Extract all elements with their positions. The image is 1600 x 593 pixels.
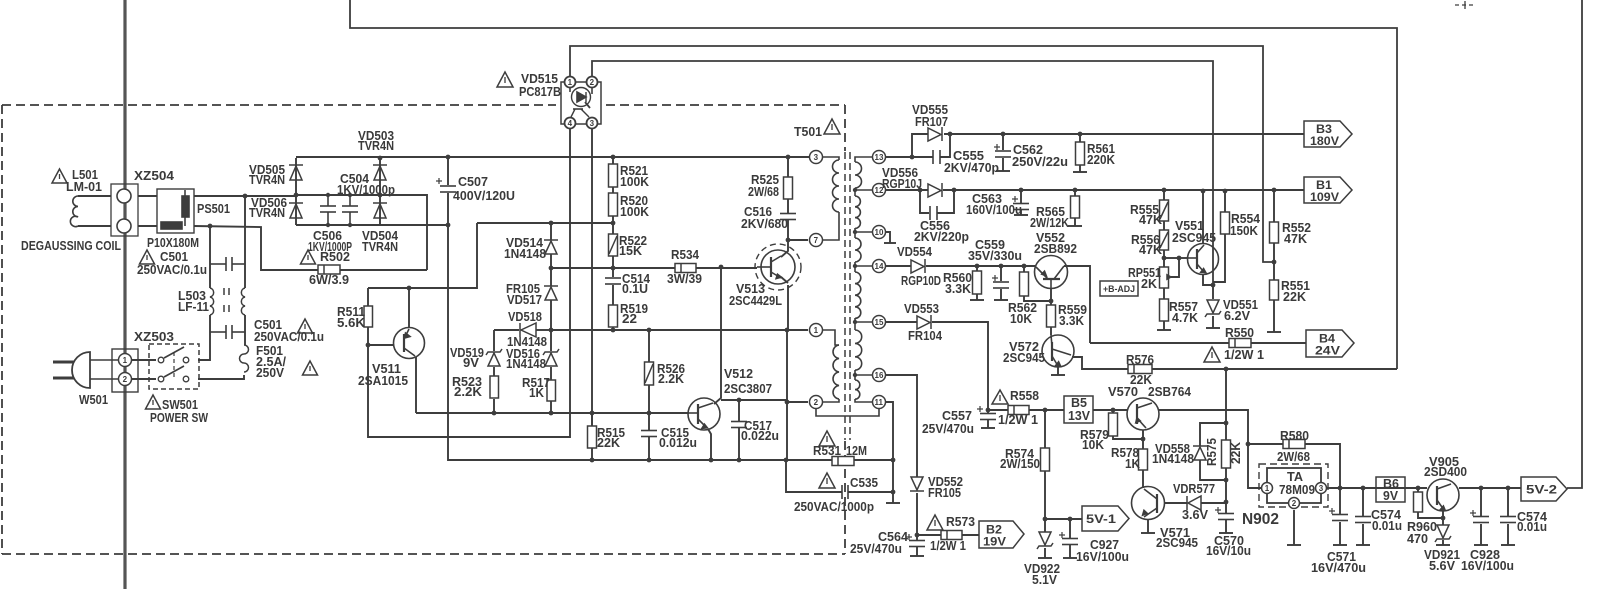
svg-text:3: 3 (590, 119, 595, 128)
svg-text:0.022u: 0.022u (741, 429, 779, 443)
wire C571 column (1339, 488, 1341, 514)
wire R511 emitter row (368, 223, 477, 288)
wire pin1 stub (787, 329, 808, 331)
svg-text:47K: 47K (1139, 213, 1162, 227)
transformer pin 3 (810, 151, 823, 164)
svg-text:2SC4429L: 2SC4429L (729, 294, 782, 308)
svg-text:T501: T501 (794, 125, 822, 139)
junction dots primary (366, 155, 896, 495)
svg-text:14: 14 (875, 262, 884, 271)
svg-text:78M09: 78M09 (1279, 483, 1315, 497)
warning triangle R550 (1204, 347, 1220, 362)
wire primary gnd bus (593, 459, 786, 461)
svg-text:1: 1 (1265, 484, 1270, 493)
diode VD552 FR105 (910, 477, 924, 491)
wire V513 collector (781, 240, 788, 257)
wire VD518 row (494, 329, 519, 331)
wire C564 leads (916, 535, 918, 540)
transformer pin 10 (873, 226, 886, 239)
wire R559 to V572 (1050, 327, 1052, 335)
resistor R960 (1414, 492, 1423, 512)
resistor R578 (1139, 449, 1148, 470)
svg-text:+B-ADJ: +B-ADJ (1103, 284, 1135, 294)
wire R575 bottom (1225, 468, 1227, 513)
wire XZ503 pin1 to switch (131, 359, 156, 361)
warning triangle R558 (992, 390, 1008, 404)
wire R960 column (1417, 488, 1419, 492)
wire R580 row (1248, 443, 1283, 445)
diode VD554 RGP10D (911, 259, 925, 273)
transistor V571 (1132, 487, 1165, 520)
wire control row y413 (416, 412, 689, 414)
wire R511 bottom to base node (368, 327, 394, 345)
svg-text:2SC945: 2SC945 (1156, 536, 1198, 550)
box B6 9V (1376, 477, 1405, 502)
connector XZ504 (111, 184, 138, 236)
svg-text:2: 2 (123, 375, 128, 384)
wire C562 column (1002, 134, 1004, 150)
wire C574a column (1362, 488, 1364, 516)
svg-text:4.7K: 4.7K (1172, 311, 1198, 325)
svg-text:10: 10 (875, 228, 884, 237)
wire C555 branch (912, 156, 933, 158)
junction dots regulation (1162, 188, 1277, 505)
svg-text:2K: 2K (1141, 277, 1157, 291)
wire V512 emitter (708, 429, 711, 460)
svg-text:VD517: VD517 (507, 293, 542, 307)
label R575 vertical (1205, 438, 1243, 466)
wire V571 emitter (1147, 519, 1149, 533)
wire VD922 node (1044, 519, 1046, 532)
svg-text:160V/100u: 160V/100u (966, 203, 1022, 217)
resistor R559 (1047, 305, 1056, 327)
wire C556 loop (920, 190, 929, 213)
wire 5V-1 row (1045, 518, 1082, 520)
wire VD519 to R523 (493, 367, 495, 376)
svg-text:N902: N902 (1242, 511, 1279, 528)
wire R534 to V513 base (696, 267, 757, 269)
svg-text:109V: 109V (1310, 192, 1339, 204)
wire top loop to 5V-2 net (350, 0, 1397, 369)
wire C557 cap leads (987, 410, 989, 413)
wire N902 pin3 out (1325, 487, 1340, 489)
capacitor C507 (436, 178, 456, 192)
transistor V552 (1035, 256, 1068, 290)
svg-text:10K: 10K (1010, 312, 1032, 326)
wire opto pin1 to R552 column (570, 46, 1274, 262)
wire V513 emitter diag (781, 277, 788, 283)
svg-text:1N4148: 1N4148 (1152, 452, 1194, 466)
svg-text:3.3K: 3.3K (945, 282, 971, 296)
gnd tick C559 (994, 299, 1008, 301)
svg-text:13V: 13V (1068, 409, 1091, 423)
svg-text:2W/68: 2W/68 (1277, 450, 1310, 464)
transformer pin 13 (873, 151, 886, 164)
diode VD555 FR107 (928, 127, 942, 141)
capacitor C556 (930, 206, 937, 220)
wire R515 bottom (591, 448, 593, 460)
wire R554 column (1224, 191, 1226, 212)
svg-text:7: 7 (814, 236, 819, 245)
diode VD556 RGP10J (928, 183, 942, 197)
resistor R531 (832, 457, 854, 466)
wire RP551 wiper arrow (1171, 258, 1179, 277)
wire V511 collector (415, 357, 417, 413)
wire V551 base (1179, 257, 1188, 259)
capacitor C559 (992, 275, 1009, 288)
gnd tick pin10 (884, 242, 896, 244)
wire R557 bottom (1163, 321, 1165, 330)
wire B+ top rail (296, 156, 816, 158)
wire VD517 to y330 (550, 300, 552, 330)
transformer T501 core (845, 152, 850, 440)
svg-text:2KV/680: 2KV/680 (741, 217, 788, 231)
capacitor C574a (1355, 517, 1371, 523)
wire R558 row (988, 409, 1008, 411)
resistor R515 (588, 426, 597, 448)
svg-text:R550: R550 (1225, 326, 1254, 340)
wire 5V-2 rail (1330, 487, 1427, 489)
svg-text:W501: W501 (79, 393, 108, 407)
svg-text:XZ503: XZ503 (134, 330, 174, 344)
svg-text:9V: 9V (1383, 489, 1399, 503)
zener VD516 (543, 349, 559, 366)
wire R565 column (1074, 190, 1076, 196)
wire C563 column (1020, 190, 1022, 203)
gnd tick R561 (1073, 171, 1087, 173)
transformer pin 16 (873, 369, 886, 382)
wire collector node to pin7 (788, 239, 808, 241)
resistor R551 (1270, 280, 1279, 300)
degaussing coil L501 (70, 196, 78, 227)
gnd tick VD922 (1038, 557, 1052, 559)
gnd tick C562 (996, 170, 1010, 172)
svg-text:2SA1015: 2SA1015 (358, 374, 408, 388)
capacitor C928 (1470, 510, 1489, 523)
svg-text:400V/120U: 400V/120U (453, 189, 515, 203)
wire R517 bottom (550, 401, 552, 413)
wire C517 leads (738, 400, 740, 421)
resistor R526 (645, 362, 654, 385)
capacitor C555 (933, 150, 940, 164)
wire VD553 to C557 column (932, 322, 988, 410)
wire R523 bottom (493, 399, 495, 413)
resistor R511 (364, 306, 373, 327)
flag 5V-2 (1521, 477, 1567, 501)
svg-text:6W/3.9: 6W/3.9 (309, 273, 349, 287)
svg-text:2: 2 (814, 398, 819, 407)
svg-text:C501: C501 (160, 250, 188, 264)
resistor R579 (1109, 413, 1118, 436)
gnd tick C927 (1063, 557, 1077, 559)
wire L-filter right leg lower (244, 315, 246, 345)
svg-text:250VAC/0.1u: 250VAC/0.1u (254, 330, 324, 344)
svg-text:0.012u: 0.012u (659, 436, 697, 450)
diode VD503 (373, 165, 387, 180)
wire C516 to collector node (787, 220, 789, 240)
resistor R522 (609, 234, 618, 256)
svg-text:12M: 12M (846, 444, 867, 458)
svg-text:220K: 220K (1087, 153, 1115, 167)
diode VD558 (1193, 446, 1207, 460)
diode VD506 (289, 203, 303, 218)
gnd tick R551 (1267, 331, 1281, 333)
capacitor C514 (605, 278, 621, 284)
svg-text:B5: B5 (1071, 396, 1087, 410)
transformer pin 12 (873, 184, 886, 197)
wire R526 column (648, 330, 650, 362)
svg-text:11: 11 (875, 398, 884, 407)
wire C507 column (447, 157, 449, 185)
svg-text:SW501: SW501 (162, 398, 198, 412)
svg-text:2: 2 (1292, 499, 1297, 508)
capacitor C563 (1012, 196, 1029, 210)
svg-text:100K: 100K (620, 175, 649, 189)
svg-text:5.1V: 5.1V (1032, 573, 1058, 587)
svg-text:TVR4N: TVR4N (362, 240, 398, 254)
svg-text:9V: 9V (463, 356, 480, 370)
svg-text:V512: V512 (724, 367, 753, 381)
wire RP551 tap node (1164, 257, 1179, 259)
resistor R557 (1160, 299, 1169, 321)
wire R521 top (612, 157, 614, 164)
svg-text:16V/470u: 16V/470u (1311, 561, 1366, 575)
svg-text:19V: 19V (983, 537, 1006, 549)
svg-text:B3: B3 (1316, 124, 1332, 136)
gnd tick VD551 (1206, 327, 1220, 329)
svg-text:2KV/220p: 2KV/220p (914, 230, 969, 244)
wire L-filter left leg (209, 226, 211, 288)
svg-text:5V-2: 5V-2 (1526, 485, 1557, 497)
svg-text:10K: 10K (1082, 438, 1104, 452)
gnd tick R565 (1068, 225, 1082, 227)
svg-text:15K: 15K (619, 244, 642, 258)
wire pin14 to VD554 (886, 265, 911, 267)
svg-text:1/2W 1: 1/2W 1 (998, 413, 1038, 427)
resistor R550 (1229, 339, 1251, 348)
labels regulation (1003, 203, 1311, 387)
wire R555 to R556 (1163, 221, 1165, 230)
wire L-filter right leg (244, 196, 246, 288)
resistor R523 (490, 376, 499, 398)
svg-text:24V: 24V (1315, 346, 1340, 358)
labels input section (21, 129, 398, 425)
transformer pin 15 (873, 316, 886, 329)
transistor V551 (1188, 244, 1219, 275)
wire R561 column (1079, 134, 1081, 142)
warning triangle F501 (303, 361, 318, 375)
svg-text:R576: R576 (1126, 353, 1154, 367)
svg-text:0.01u: 0.01u (1517, 520, 1547, 534)
zener VD921 (1435, 525, 1451, 542)
wire V511 emitter (408, 288, 410, 328)
wire V552 collector to B4 (1064, 266, 1090, 343)
resistor R558 (1008, 406, 1029, 415)
svg-text:2W/150: 2W/150 (1000, 457, 1040, 471)
svg-text:22K: 22K (1229, 442, 1243, 464)
svg-text:16V/100u: 16V/100u (1461, 559, 1514, 573)
svg-text:C507: C507 (458, 175, 488, 189)
svg-text:250V/22u: 250V/22u (1012, 155, 1068, 169)
gnd tick C574a (1356, 544, 1370, 546)
wire R552 column (1273, 190, 1275, 222)
svg-text:VD554: VD554 (897, 245, 932, 259)
plus tick top right (1455, 1, 1476, 9)
resistor R565 (1071, 196, 1080, 218)
capacitor C535 (842, 485, 848, 499)
line filter L503 (210, 288, 245, 315)
transformer T501 primary winding (816, 157, 839, 240)
svg-text:3: 3 (1319, 484, 1324, 493)
svg-text:VDR577: VDR577 (1173, 482, 1215, 496)
svg-text:16: 16 (875, 371, 884, 380)
diode VD517 FR105 (544, 286, 558, 300)
svg-text:FR107: FR107 (915, 115, 948, 129)
capacitor C927 (1059, 532, 1078, 545)
wire N902 pin2 (1293, 510, 1295, 545)
transistor V572 (1042, 335, 1074, 367)
svg-text:R573: R573 (946, 515, 975, 529)
wire R551 column (1273, 300, 1275, 332)
svg-text:5V-1: 5V-1 (1086, 514, 1117, 526)
resistor R525 (784, 177, 793, 199)
resistor R502 (318, 265, 340, 274)
svg-text:C557: C557 (942, 409, 972, 423)
svg-text:250VAC/1000p: 250VAC/1000p (794, 500, 874, 514)
svg-text:5.6K: 5.6K (337, 316, 365, 330)
resistor R519 (609, 305, 618, 327)
zener VD519 (486, 349, 502, 366)
wire C535 loop left (786, 460, 842, 492)
wire 24V rail (926, 265, 1035, 267)
wire secondary gnd column (886, 402, 893, 503)
svg-text:25V/470u: 25V/470u (922, 422, 974, 436)
wire C515 column (648, 413, 650, 430)
resistor R556 (1160, 230, 1169, 250)
connector XZ503 (112, 349, 138, 392)
wire PS501 bottom to R502 (194, 226, 318, 270)
svg-text:TVR4N: TVR4N (249, 173, 285, 187)
warning triangle C501 upper (140, 250, 155, 264)
svg-text:22: 22 (622, 312, 637, 326)
svg-text:R531: R531 (813, 444, 841, 458)
warning triangle C501 lower (298, 319, 313, 333)
svg-text:C535: C535 (850, 476, 878, 490)
transformer pin 11 (873, 396, 886, 409)
wire R560 column (976, 266, 978, 271)
svg-text:VD553: VD553 (904, 302, 939, 316)
mains plug W501 (53, 352, 119, 388)
resistor R580 (1283, 440, 1305, 449)
svg-text:2KV/470p: 2KV/470p (944, 161, 999, 175)
svg-text:3: 3 (814, 153, 819, 162)
wire R531 bleeder row (786, 459, 832, 461)
warning triangle R502 (301, 250, 316, 264)
svg-text:POWER SW: POWER SW (150, 411, 208, 425)
resistor R576 (1128, 365, 1152, 374)
power switch SW501 (149, 344, 199, 389)
wire R550 to B4 flag (1251, 342, 1306, 344)
potentiometer RP551 (1160, 267, 1172, 288)
wire XZ503 pin2 to switch (131, 378, 156, 380)
wire C928 column (1480, 488, 1482, 516)
wire R574 column (1044, 410, 1046, 448)
svg-text:R502: R502 (320, 250, 350, 264)
capacitor C574b (1500, 517, 1516, 523)
wire C514 to R519 (612, 285, 614, 305)
capacitor C516 (780, 214, 796, 220)
svg-text:TA: TA (1287, 470, 1303, 484)
wire V551 emitter (1203, 274, 1213, 285)
junction dots input (208, 156, 383, 229)
capacitor C570 (1215, 507, 1234, 520)
wire VD921 bottom (1442, 540, 1444, 545)
wire XZ504 to PS501 top (138, 195, 157, 197)
wire R525 to C516 (787, 199, 789, 213)
wire C570 bottom (1225, 520, 1227, 533)
capacitor C501 (lower) (210, 325, 245, 339)
wire VD516 to R517 (550, 367, 552, 380)
wire bridge left column (295, 158, 297, 225)
wire VD516 column (550, 330, 552, 351)
gnd tick C928 (1474, 544, 1488, 546)
wire R525 top (787, 157, 789, 177)
svg-text:3.3K: 3.3K (1059, 314, 1084, 328)
wire pin7 stub (798, 239, 808, 241)
warning triangle R531 (819, 431, 835, 446)
warning triangle C535 (819, 473, 835, 488)
svg-text:VD518: VD518 (508, 310, 542, 324)
wire VD518 to VD516 node (536, 329, 551, 331)
svg-text:5.6V: 5.6V (1429, 559, 1456, 573)
gnd tick N902 (1287, 544, 1301, 546)
svg-text:FR105: FR105 (928, 486, 961, 500)
wire R511 top lead (367, 288, 369, 306)
svg-text:2SC945: 2SC945 (1172, 231, 1216, 245)
svg-text:2.2K: 2.2K (454, 385, 482, 399)
svg-text:1: 1 (814, 326, 819, 335)
resistor R517 (547, 380, 556, 401)
junction dots rails (910, 132, 1083, 538)
wire fuse to switch (198, 375, 244, 379)
gnd tick V571 (1141, 532, 1155, 534)
labels 5V section (998, 385, 1547, 587)
gnd tick C574b (1501, 544, 1515, 546)
wire V570 emitter (1142, 430, 1144, 439)
gnd tick C564 (910, 555, 924, 557)
wire V512 collector (714, 267, 721, 404)
svg-text:V570: V570 (1108, 385, 1138, 399)
svg-text:1N4148: 1N4148 (504, 247, 546, 261)
resistor R554 (1221, 212, 1230, 234)
svg-text:16V/10u: 16V/10u (1206, 544, 1251, 558)
flag 5V-1 (1082, 506, 1129, 531)
svg-text:PC817B: PC817B (519, 85, 561, 99)
flag B3 180V (1304, 121, 1352, 147)
flag B1 109V (1304, 177, 1352, 203)
svg-text:B1: B1 (1316, 180, 1333, 192)
resistor R521 (609, 164, 618, 187)
wire bridge AC1 middle (296, 195, 427, 270)
fuse F501 (240, 345, 249, 372)
svg-text:3W/39: 3W/39 (667, 272, 702, 286)
capacitor C506 pair (342, 195, 358, 225)
svg-text:VD515: VD515 (521, 72, 558, 86)
warning triangle L501 (52, 169, 67, 183)
wire R579 column (1112, 410, 1114, 413)
wire V571 base to VDR577 (1164, 502, 1187, 504)
resistor R561 (1076, 142, 1085, 165)
